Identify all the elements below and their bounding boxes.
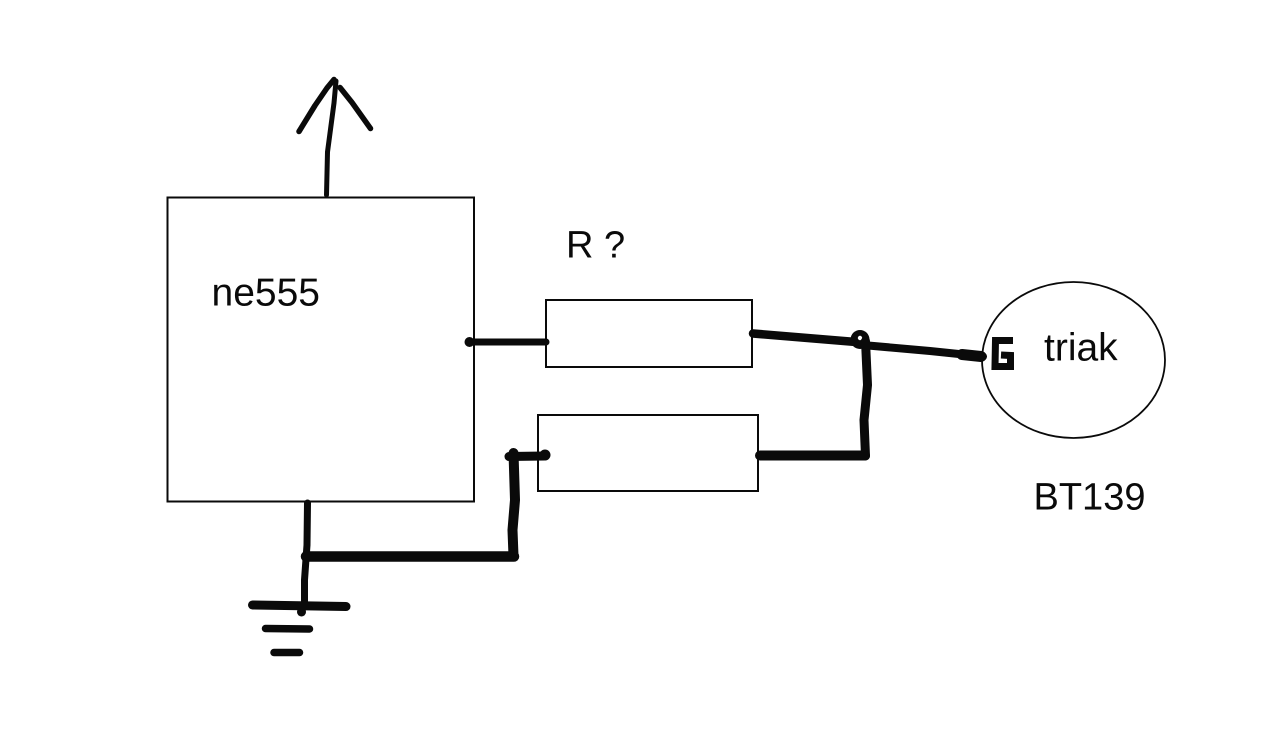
ground (253, 605, 347, 653)
junction dot at ne555 output pin (465, 337, 475, 347)
svg-text:BT139: BT139 (1034, 477, 1146, 519)
pin label G (triac gate) (995, 341, 1013, 367)
label BT139 (1034, 477, 1146, 519)
wire: R2 right to vertical wire (760, 451, 865, 461)
wire: long horizontal to ground node (306, 551, 514, 562)
svg-text:triak: triak (1044, 327, 1118, 370)
wire: down from R2 stub (513, 453, 516, 556)
wire: ne555 output pin to R1 (469, 339, 546, 346)
label triak (1044, 327, 1118, 370)
wire: stub into R2 left pin (509, 452, 545, 462)
junction dot at R2 left pin (540, 450, 551, 461)
svg-text:R ?: R ? (566, 225, 625, 267)
triac BT139 body (circle) (982, 282, 1165, 438)
wire: node A to triac gate G (868, 346, 983, 357)
power arrow VCC (299, 80, 371, 196)
wire: R1 right to node A (753, 334, 856, 343)
ic U1 ne555 body (168, 198, 475, 502)
svg-text:ne555: ne555 (212, 272, 320, 315)
junction dot at ground wire end (297, 608, 306, 617)
resistor R1 (546, 300, 752, 367)
resistor R2 (538, 415, 758, 491)
label ne555 (212, 272, 320, 315)
junction node A (851, 330, 870, 349)
label R ? (566, 225, 625, 267)
wire: node A down (vertical) (864, 341, 868, 456)
wire: ne555 ground pin down to ground (305, 503, 308, 607)
